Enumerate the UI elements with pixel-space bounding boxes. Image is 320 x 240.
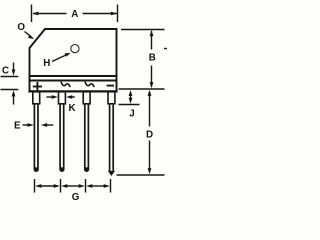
svg-text:D: D bbox=[146, 130, 153, 141]
svg-text:E: E bbox=[14, 121, 21, 132]
svg-text:G: G bbox=[72, 192, 80, 203]
svg-text:O: O bbox=[17, 22, 25, 33]
svg-text:K: K bbox=[69, 103, 76, 114]
svg-text:J: J bbox=[129, 109, 134, 120]
svg-text:B: B bbox=[149, 53, 156, 64]
svg-text:H: H bbox=[43, 58, 50, 69]
svg-text:A: A bbox=[71, 9, 78, 20]
svg-text:C: C bbox=[2, 66, 9, 77]
